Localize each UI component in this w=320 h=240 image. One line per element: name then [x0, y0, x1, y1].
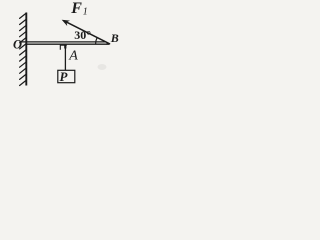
svg-text:1: 1: [83, 6, 88, 17]
weight box: [58, 70, 75, 82]
angle arc at B: [96, 38, 98, 44]
force F1 shaft: [64, 21, 110, 44]
hook at A: [60, 45, 67, 50]
beam bottom line: [27, 43, 110, 45]
svg-text:O: O: [13, 37, 22, 51]
svg-text:A: A: [68, 48, 78, 63]
svg-text:F: F: [70, 0, 82, 17]
svg-text:B: B: [110, 31, 119, 45]
svg-text:P: P: [60, 69, 69, 84]
background paper: [0, 0, 123, 88]
beam top line (extends through wall at O): [21, 41, 106, 43]
knot at A: [64, 45, 66, 49]
wall hatching: [20, 13, 27, 86]
force F1 arrowhead: [62, 20, 70, 26]
beam tip fill at B: [107, 42, 111, 45]
svg-text:30°: 30°: [74, 28, 91, 42]
smudge: [98, 64, 107, 70]
wall line: [25, 13, 27, 86]
string to weight: [64, 46, 66, 71]
